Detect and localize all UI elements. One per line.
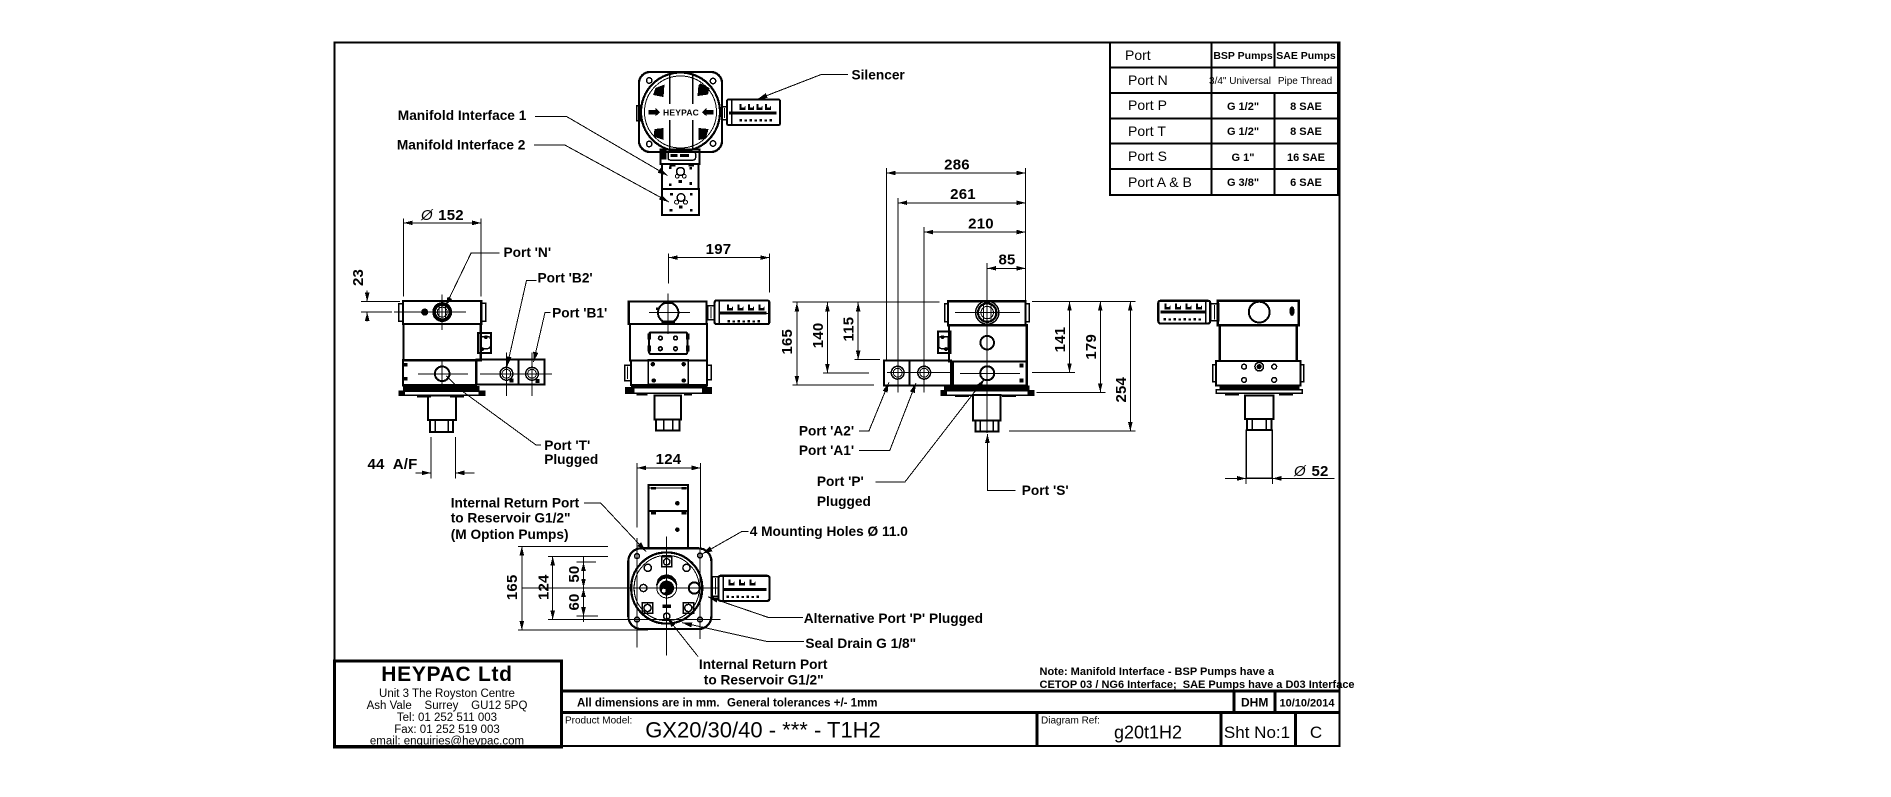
svg-text:Port 'B1': Port 'B1' [552,305,607,320]
bottom view silencer body [719,576,770,601]
manifold block 2 dot [675,527,680,532]
dimension 152 diameter [404,207,482,297]
bottom view silencer left cap [722,577,724,600]
dimension 124 bottom view top [637,451,701,548]
center view top cap [629,301,707,324]
label Silencer [757,68,905,100]
far right silencer top glyphs [1164,303,1202,309]
bottom view silencer bottom glyphs [726,595,759,598]
right view mid body [949,325,1027,361]
far right lower block tabs [1213,365,1216,382]
left view lower block bolt marks [404,363,408,367]
right view vertical centerline [986,301,988,433]
label Port A2 [799,382,889,438]
svg-text:Port 'T': Port 'T' [544,438,590,453]
tube extension overshoot [1245,478,1247,484]
port A2 circles [891,366,904,379]
far right flange clamp black bar [1220,386,1300,390]
left view side fitting block [478,333,491,353]
dimension 50 bottom view [566,556,596,593]
top view silencer left cap line [731,101,733,125]
svg-text:C: C [1310,723,1322,742]
mounting hole SW [635,617,640,622]
top view corner hole SW [647,141,652,146]
svg-text:115: 115 [841,317,858,342]
port P circle [980,366,994,380]
title block [335,661,1355,748]
right view port N centerline [955,312,1020,314]
label 4 Mounting Holes [703,524,909,554]
left view flange plate [399,391,485,395]
ports table top right [1110,43,1338,196]
label Alternative Port P Plugged [708,597,983,626]
right view flange plate [941,391,1034,395]
far right suction neck [1245,396,1273,420]
left view suction thread [430,420,453,432]
svg-text:Product Model:: Product Model: [565,716,632,727]
svg-text:HEYPAC Ltd: HEYPAC Ltd [381,663,512,686]
right view right ear [1026,304,1030,322]
dimension 197 [669,241,770,293]
manifold 2 center port [677,194,685,202]
label Manifold Interface 2 [397,137,669,202]
svg-text:to Reservoir G1/2": to Reservoir G1/2" [704,673,824,688]
center side view pump [625,293,770,430]
top view black wedge NE [698,84,710,97]
svg-text:General tolerances +/- 1mm: General tolerances +/- 1mm [727,698,878,710]
svg-text:Unit 3 The Royston Centre: Unit 3 The Royston Centre [379,688,515,700]
right view flange clamp black bar [944,385,1029,390]
svg-text:Port 'B2': Port 'B2' [538,271,593,286]
manifold interface 2 block [662,189,699,215]
far right silencer bottom glyphs [1164,318,1202,321]
svg-text:10/10/2014: 10/10/2014 [1279,698,1335,710]
svg-text:Port T: Port T [1128,123,1166,139]
top view black wedge SW [654,128,664,140]
center view flange feet [636,393,647,395]
center view port N hex [658,303,678,323]
dimension 44 A/F [368,437,475,478]
manifold block 1 dot [675,501,680,506]
far right lower block holes [1242,364,1247,369]
top view black wedge SE [699,128,709,140]
dimension 261 [898,186,1025,392]
diagram ref cell [1036,713,1039,746]
right view side fitting block [938,331,951,352]
dimension 124 bottom view left [535,556,720,619]
svg-text:CETOP 03 / NG6 Interface; SAE: CETOP 03 / NG6 Interface; SAE Pumps have… [1040,679,1355,691]
center view vertical centerline [667,293,669,334]
svg-text:email: enquiries@heypac.com: email: enquiries@heypac.com [370,736,524,748]
label Internal Return Port M Option [451,496,646,552]
svg-text:Tel: 01 252 511 003: Tel: 01 252 511 003 [397,712,497,724]
center view silencer body [715,301,770,325]
port T circle [435,367,450,382]
bottom view manifold block 1 [649,485,688,511]
left view vertical centerline [441,295,443,331]
top view corner hole NE [710,78,715,83]
mounting hole NW [635,554,640,559]
mounting hole SE [698,617,703,622]
far right top cap [1218,301,1299,326]
right view top cap [948,301,1026,325]
sheet no cell [1220,713,1223,746]
product model row [562,711,1340,714]
svg-text:Port 'A2': Port 'A2' [799,423,854,438]
svg-text:Port 'A1': Port 'A1' [799,443,854,458]
alternative port P hole [689,582,700,593]
svg-text:8 SAE: 8 SAE [1290,126,1322,138]
dimension 85 [987,251,1025,300]
center shaft octagon [656,574,677,595]
svg-text:Port P: Port P [1128,97,1167,113]
bottom view silencer connector [712,577,718,597]
table grid [1110,43,1338,196]
bottom view flange outline [628,548,711,629]
svg-text:Silencer: Silencer [852,68,906,83]
bolt hole S [664,613,670,619]
svg-text:Seal Drain G 1/8": Seal Drain G 1/8" [805,636,916,651]
center view lower body [631,361,707,386]
svg-text:124: 124 [656,451,682,468]
ports A extension block [884,360,951,385]
right view lower block bolt marks [1020,364,1024,368]
svg-text:G 1": G 1" [1232,152,1255,164]
manifold block 2 corner marks [651,512,656,515]
svg-text:124: 124 [535,574,552,600]
far right cap circle [1249,302,1270,323]
right view left ear [945,304,948,322]
svg-text:8 SAE: 8 SAE [1290,101,1322,113]
svg-text:23: 23 [350,269,367,286]
svg-text:179: 179 [1083,334,1100,360]
center view flange clamp black bar [631,384,708,388]
face plate corner tabs [648,334,651,339]
bottom view centerline horizontal [522,587,719,589]
svg-text:Manifold Interface 1: Manifold Interface 1 [398,108,527,123]
svg-text:Ø: Ø [1293,463,1307,480]
top view logo left arrow [649,108,661,116]
far right suction thread [1247,419,1271,430]
manifold 1 top tabs [670,164,676,167]
svg-text:44 A/F: 44 A/F [368,456,418,473]
top view silencer connector [722,107,727,120]
right view flange feet [955,395,969,397]
svg-text:Port 'N': Port 'N' [504,245,552,260]
small plug left of port N [421,309,428,316]
manifold 2 bolt marks [670,193,673,196]
center view silencer connector [708,306,715,320]
B2 vertical centerline [505,353,507,397]
center view silencer top glyphs [727,304,765,310]
center view manifold face plate [649,332,687,354]
svg-text:197: 197 [706,241,732,258]
svg-text:165: 165 [779,329,796,355]
top view neck inner slot [671,154,690,157]
port B1 circles [526,367,539,380]
center view suction thread [656,420,680,431]
top view silencer mid black band [729,111,777,114]
center view left wing [625,365,631,380]
bolt hole SE with box [683,603,694,614]
svg-text:HEYPAC: HEYPAC [663,108,699,118]
top view corner hole SE [710,141,715,146]
svg-text:60: 60 [566,593,583,610]
far right silencer connector [1210,304,1218,321]
far right lower block [1216,361,1301,385]
top view cross boss vertical left edge [669,75,671,104]
port N hatch [438,306,440,319]
manifold block 1 corner marks [651,487,656,490]
svg-text:140: 140 [810,323,827,349]
B1 corner mark [535,379,539,383]
svg-text:DHM: DHM [1241,696,1268,710]
bolt hole NE [683,564,690,571]
far right rear view pump [1158,301,1303,484]
dimension 60 bottom view [566,588,598,622]
left view suction neck [428,395,456,420]
svg-text:50: 50 [566,566,583,583]
svg-text:Port: Port [1125,47,1151,63]
drawing border frame [335,43,1340,747]
left view horizontal centerline top [394,311,466,313]
left view flange clamp black bar [403,386,479,391]
svg-text:Internal Return Port: Internal Return Port [699,657,828,672]
center view suction neck [655,395,681,419]
svg-text:210: 210 [968,216,994,233]
svg-text:g20t1H2: g20t1H2 [1114,723,1182,743]
top view silencer body [727,100,780,126]
svg-text:Alternative Port 'P' Plugged: Alternative Port 'P' Plugged [804,611,983,626]
manifold 1 center port [677,168,685,176]
center view silencer inner top line [719,313,768,315]
svg-text:Plugged: Plugged [817,494,871,509]
svg-text:G 3/8": G 3/8" [1227,177,1259,189]
svg-text:Ash Vale Surrey GU12 5PQ: Ash Vale Surrey GU12 5PQ [367,700,528,712]
dimensions 165 140 115 left trio [779,302,940,385]
tolerances row [562,690,1340,693]
top view neck left black mark [662,151,667,160]
right mirrored front view pump [884,301,1034,433]
svg-text:Internal Return Port: Internal Return Port [451,496,580,511]
far right flange plate [1216,390,1302,393]
svg-text:Manifold Interface 2: Manifold Interface 2 [397,137,526,152]
far right silencer black band [1161,311,1206,314]
svg-text:GX20/30/40 - *** - T1H2: GX20/30/40 - *** - T1H2 [645,718,881,743]
center view flange plate [626,388,712,394]
svg-text:Sht No:1: Sht No:1 [1224,723,1290,742]
label Manifold Interface 1 [398,108,668,176]
lower plate bolt marks [651,362,655,366]
left front view pump [394,295,552,433]
label Port B1 [533,305,607,362]
bottom view pump [628,485,769,629]
center shaft white ring [657,578,677,598]
A ports horizontal centerline [887,372,950,374]
svg-text:Fax: 01 252 519 003: Fax: 01 252 519 003 [394,724,500,736]
svg-text:BSP Pumps: BSP Pumps [1213,50,1272,62]
svg-text:Port 'P': Port 'P' [817,474,864,489]
company box [335,661,562,747]
DHM cell [1232,691,1235,713]
B ports horizontal centerline [480,373,552,375]
B1 vertical centerline [531,353,533,397]
svg-text:Port N: Port N [1128,72,1168,88]
label Port P Plugged [817,379,985,509]
label Port A1 [799,383,916,458]
bottom view silencer black band [724,588,767,591]
revision cell [1294,713,1297,746]
top view body circle outer [641,73,720,152]
right view lower block [953,362,1027,386]
center keyway tick [663,605,671,608]
center view silencer black band [720,311,767,314]
svg-text:G 1/2": G 1/2" [1227,101,1259,113]
dimension 210 [924,216,1025,393]
svg-text:141: 141 [1052,327,1069,353]
port N boss circles [433,303,451,321]
dimension 286 [887,156,1026,359]
left view mid body [404,324,481,360]
bottom view silencer top glyphs [729,579,756,585]
right view suction thread [975,421,998,432]
svg-text:Plugged: Plugged [544,452,598,467]
dimension 165 bottom view [504,546,648,630]
far right flange feet [1225,393,1239,395]
svg-text:16 SAE: 16 SAE [1287,152,1325,164]
label Port N [446,245,552,306]
face plate bolt holes [658,335,663,340]
top view silencer top glyphs [740,104,772,110]
top view neck inner plate [668,152,696,161]
left view right ear [481,303,485,321]
right view suction neck [973,395,1001,421]
top view neck below flange [661,150,700,165]
label Seal Drain [682,622,916,651]
center view right wing [707,365,711,380]
svg-text:Ø: Ø [420,207,434,224]
far right silencer body [1158,301,1210,324]
top view logo right arrow [702,108,714,116]
left view flange feet [417,395,431,397]
svg-text:Diagram Ref:: Diagram Ref: [1041,716,1100,727]
svg-text:4 Mounting Holes Ø 11.0: 4 Mounting Holes Ø 11.0 [750,524,909,539]
bottom view centerline verticals [636,538,638,648]
svg-text:6 SAE: 6 SAE [1290,177,1322,189]
svg-text:Port S: Port S [1128,148,1167,164]
label Port T Plugged [447,376,599,467]
top view black wedge NW [653,85,665,98]
top view body circle inner [645,76,717,148]
center view port N centerline [649,312,690,314]
right view port N boss [976,301,999,324]
bottom view manifold block 2 [649,511,688,549]
bottom view main circle [631,552,702,623]
dimension diameter 52 [1225,463,1335,481]
label Port B2 [507,271,593,367]
svg-text:(M Option Pumps): (M Option Pumps) [451,527,569,542]
port P centerline [960,372,1020,374]
manifold 1 bolt marks [669,166,672,169]
label Internal Return Port bottom [667,618,828,688]
manifold interface 1 block [662,164,699,189]
bolt hole SW with box [642,603,653,614]
svg-text:52: 52 [1311,463,1328,480]
left view left ear [399,304,403,322]
far right suction tube [1246,430,1272,478]
svg-text:152: 152 [438,207,464,224]
dimensions 141 179 254 right trio [1009,302,1135,432]
svg-text:SAE Pumps: SAE Pumps [1276,50,1336,62]
svg-text:286: 286 [944,156,970,173]
svg-text:254: 254 [1113,376,1130,402]
center view silencer left cap [718,302,720,324]
top view cross boss vertical right edge [692,75,694,104]
top view corner hole NW [647,78,652,83]
far right port side black oval [1289,307,1294,316]
svg-text:85: 85 [998,251,1015,268]
top view flange outline [639,72,722,152]
top view pump (plan) [637,72,780,215]
center view lower inner plate [648,360,688,385]
bolt hole NW inner [644,564,651,571]
port A1 circles [918,366,931,379]
left view lower block [403,360,476,385]
B2 corner mark [510,378,514,382]
svg-text:G 1/2": G 1/2" [1227,126,1259,138]
bolt hole W [640,584,647,591]
center shaft black core [659,581,674,596]
top view left edge tab [637,106,641,121]
right view body circle [980,336,994,350]
center view silencer bottom glyphs [727,320,760,323]
svg-text:261: 261 [950,186,976,203]
dimension 23 [350,269,400,322]
svg-text:to Reservoir G1/2": to Reservoir G1/2" [451,510,571,525]
svg-text:Port A & B: Port A & B [1128,174,1192,190]
B block divider [518,360,520,385]
far right mid body [1220,325,1297,361]
port T vertical centerline [441,362,443,392]
label Port S [985,434,1069,498]
port T centerline [418,373,468,375]
svg-text:Port 'S': Port 'S' [1022,483,1069,498]
A block divider [909,360,911,385]
bolt hole N with box [662,557,672,567]
svg-text:165: 165 [504,574,521,600]
ports B extension block [477,360,545,385]
svg-text:3/4" Universal: 3/4" Universal [1209,76,1271,87]
far right silencer right cap [1205,302,1207,323]
svg-text:All dimensions are in mm.: All dimensions are in mm. [577,698,720,710]
svg-text:Pipe Thread: Pipe Thread [1278,76,1332,87]
top view silencer bottom glyphs [740,119,773,122]
mounting hole NE [698,553,703,558]
left view top cap [403,301,481,324]
port B2 circles [500,367,513,380]
svg-text:Note: Manifold Interface - BSP: Note: Manifold Interface - BSP Pumps hav… [1040,666,1275,678]
center view mid body [630,324,707,360]
